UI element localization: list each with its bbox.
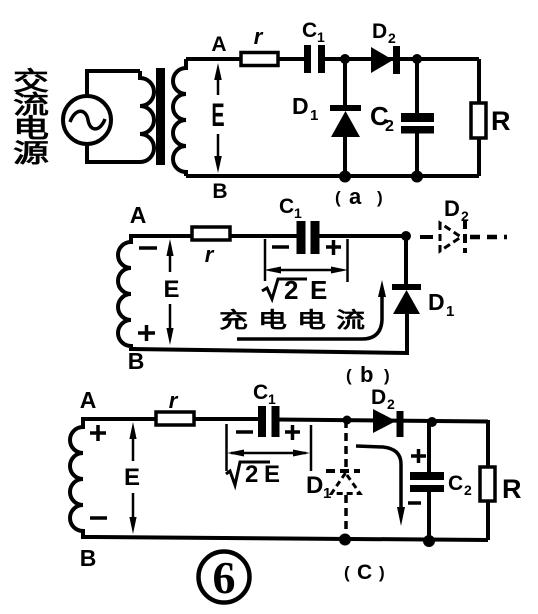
label C1 (b) (279, 195, 302, 221)
label (b) (346, 362, 390, 387)
transformer primary winding (140, 71, 154, 162)
svg-text:): ) (384, 366, 390, 385)
polarity plus C1 (c) (285, 425, 300, 440)
junction dot bottom D1 (a) (339, 171, 351, 183)
label AC source 交流电源 (13, 67, 49, 168)
svg-text:B: B (80, 545, 97, 571)
capacitor C2 (a) (401, 59, 434, 176)
svg-text:1: 1 (446, 303, 454, 320)
svg-text:2: 2 (385, 118, 394, 135)
node junction (b) (401, 231, 411, 241)
svg-text:D: D (371, 386, 386, 409)
wire bottom (a) (186, 174, 479, 178)
label D1 (a) (292, 93, 318, 124)
transformer secondary winding (173, 59, 186, 176)
resistor r (b) (192, 227, 230, 240)
dimension bracket sqrt2E (c) (227, 424, 312, 471)
label D1 (c) (306, 472, 331, 502)
label D2 (b) (444, 196, 469, 224)
svg-text:R: R (491, 106, 511, 136)
svg-text:1: 1 (317, 29, 325, 45)
polarity plus C1 (b) (326, 240, 341, 255)
wire bottom (c) (95, 537, 488, 540)
diode D1 (a) (330, 59, 361, 176)
wire top (c) left (95, 417, 261, 421)
svg-text:2: 2 (464, 482, 472, 498)
secondary winding (b) (118, 236, 136, 349)
svg-text:D: D (292, 93, 309, 119)
polarity minus C1 (c) (236, 430, 253, 434)
wire top (c) right (277, 420, 488, 422)
label C1 (a) (302, 19, 325, 45)
load resistor R (c) (480, 420, 495, 540)
wire primary loop (87, 71, 140, 162)
svg-text:C: C (302, 19, 317, 42)
capacitor C1 (b) (297, 221, 320, 254)
capacitor C2 (c) (410, 420, 444, 541)
svg-text:a: a (349, 184, 362, 209)
label D1 (b) (428, 289, 454, 320)
polarity minus (c) (90, 516, 107, 520)
svg-text:E: E (163, 276, 179, 303)
polarity plus (b) (138, 325, 155, 341)
secondary winding (c) (70, 419, 95, 537)
svg-text:E: E (124, 464, 140, 491)
load resistor R (a) (471, 59, 486, 176)
wire top (b) left (131, 234, 299, 238)
AC source symbol (63, 96, 111, 144)
svg-text:(: ( (346, 366, 352, 385)
capacitor C1 (c) (258, 406, 280, 437)
label sqrt2E (c) (226, 461, 280, 488)
label D2 (c) (371, 386, 395, 412)
svg-text:D: D (306, 472, 323, 499)
diode D2 (a) (371, 46, 400, 74)
svg-text:B: B (212, 180, 227, 203)
svg-text:充电电流: 充电电流 (219, 307, 375, 332)
label D2 (a) (372, 20, 396, 46)
svg-text:C: C (253, 381, 268, 404)
discharge current arrow (c) (356, 446, 405, 526)
svg-text:源: 源 (13, 139, 49, 168)
node junction after D2 (a) (412, 54, 422, 64)
resistor r (a) (241, 53, 278, 66)
wire top (a) left (186, 57, 307, 61)
svg-text:R: R (502, 474, 522, 504)
svg-text:1: 1 (294, 205, 302, 221)
diode D2 dashed (b) (420, 220, 507, 253)
diode D1 dashed (c) (326, 420, 360, 540)
svg-text:C: C (279, 195, 294, 218)
charging current arrow (237, 280, 386, 339)
svg-text:C: C (448, 472, 463, 495)
svg-text:): ) (379, 563, 385, 582)
svg-text:A: A (211, 33, 226, 56)
junction dot bottom C2 (a) (411, 171, 423, 183)
figure number 6 circled (199, 552, 250, 604)
label (C) (344, 561, 385, 584)
svg-text:D: D (444, 196, 460, 221)
svg-text:(: ( (335, 188, 341, 207)
svg-text:r: r (169, 388, 179, 413)
dimension bracket sqrt2E (b) (264, 239, 348, 282)
resistor r (c) (156, 412, 194, 425)
svg-text:E: E (264, 461, 280, 488)
svg-text:6: 6 (213, 552, 236, 603)
dimension E with arrows (b) (166, 239, 173, 345)
capacitor C1 (a) (304, 45, 325, 73)
diode D2 (c) (373, 409, 404, 437)
label C1 (c) (253, 381, 276, 407)
polarity plus C2 (c) (411, 449, 426, 463)
svg-text:2: 2 (461, 208, 469, 224)
svg-text:D: D (428, 289, 445, 315)
svg-text:1: 1 (268, 391, 276, 407)
wire top (a) right (322, 57, 479, 61)
svg-text:r: r (205, 242, 215, 267)
svg-text:C: C (357, 561, 372, 584)
svg-text:2: 2 (245, 461, 258, 488)
polarity minus (b) (139, 246, 157, 250)
svg-text:(: ( (344, 563, 350, 582)
svg-text:E: E (310, 275, 327, 305)
svg-text:A: A (130, 202, 147, 228)
label C2 (c) (448, 472, 472, 498)
transformer core (156, 68, 165, 165)
svg-text:): ) (377, 188, 383, 207)
svg-text:2: 2 (388, 30, 396, 46)
wire top (b) right (315, 234, 406, 238)
label C2 (a) (370, 101, 394, 135)
node junction D1 top (c) (343, 416, 352, 425)
polarity minus C2 (c) (408, 501, 421, 505)
node junction after C1 (a) (340, 54, 350, 64)
label (a) (335, 184, 383, 209)
dimension E with arrows (c) (129, 422, 136, 534)
junction dot bottom C2 (c) (423, 535, 435, 547)
dimension E with arrows (a) (214, 63, 222, 173)
svg-text:D: D (372, 20, 387, 43)
junction dot bottom D1 (c) (339, 534, 351, 546)
svg-text:1: 1 (323, 485, 331, 502)
node junction after D2 (c) (427, 417, 437, 427)
wire bottom (b) (131, 314, 407, 353)
svg-text:1: 1 (310, 107, 318, 124)
diode D1 (b) (392, 236, 421, 314)
svg-text:E: E (211, 97, 224, 133)
svg-text:b: b (360, 362, 373, 387)
svg-text:2: 2 (284, 275, 298, 305)
polarity minus C1 (b) (272, 245, 289, 249)
svg-text:A: A (80, 387, 97, 413)
label sqrt2E (b) (262, 275, 327, 305)
polarity plus (c) (90, 425, 106, 441)
svg-text:r: r (254, 24, 264, 49)
svg-text:B: B (128, 348, 145, 374)
svg-text:2: 2 (387, 396, 395, 412)
